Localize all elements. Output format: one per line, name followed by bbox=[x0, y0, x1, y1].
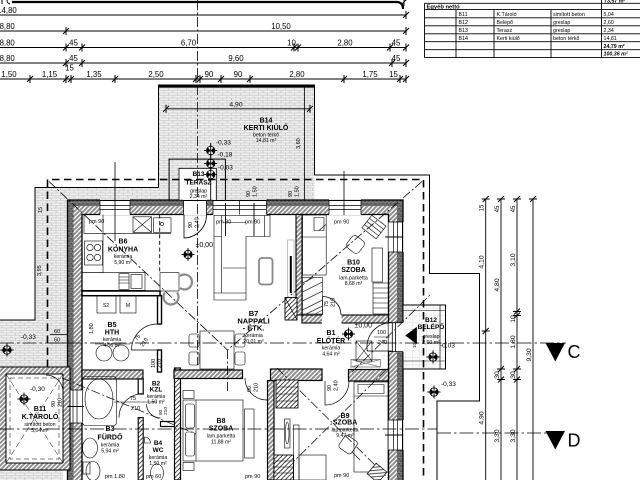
plot boundary top-right bbox=[315, 175, 480, 480]
svg-text:2,40: 2,40 bbox=[195, 217, 201, 228]
interior wall B10/B1 bbox=[302, 314, 389, 324]
top ticks bbox=[482, 196, 537, 202]
dim line 1 14,80 bbox=[0, 14, 406, 16]
svg-text:2,34: 2,34 bbox=[604, 28, 614, 34]
interior wall B8 top bbox=[174, 370, 243, 379]
window axis B10 right bbox=[385, 236, 403, 238]
exterior wall top outer leaf bbox=[68, 200, 404, 206]
terrace paving band top bbox=[35, 187, 159, 201]
svg-text:90: 90 bbox=[247, 386, 253, 392]
svg-text:60: 60 bbox=[54, 338, 60, 344]
svg-text:210: 210 bbox=[157, 359, 163, 368]
B11 inner dashed rect bbox=[10, 378, 59, 459]
svg-text:2,80: 2,80 bbox=[289, 70, 305, 79]
svg-text:90: 90 bbox=[188, 222, 194, 228]
svg-text:pm 90: pm 90 bbox=[89, 219, 104, 225]
kitchen window bbox=[100, 199, 130, 215]
svg-text:2,80: 2,80 bbox=[337, 38, 353, 47]
B8 bed bbox=[183, 400, 243, 461]
B10 bed bbox=[303, 215, 327, 275]
dim vline 1 bbox=[485, 199, 487, 480]
exterior wall right inner leaf bbox=[389, 206, 398, 480]
B10 shelf bbox=[372, 248, 383, 282]
hall shoe cabinet bbox=[351, 360, 381, 368]
B14 outline bbox=[159, 85, 315, 188]
axis line vertical A bbox=[197, 0, 199, 365]
svg-text:60: 60 bbox=[54, 329, 60, 335]
sofa bbox=[214, 216, 270, 301]
room label B9 SZOBA bbox=[331, 413, 358, 439]
svg-text:9,30: 9,30 bbox=[526, 348, 533, 361]
svg-text:10,50: 10,50 bbox=[271, 22, 291, 31]
svg-text:B1: B1 bbox=[327, 330, 336, 337]
svg-text:45: 45 bbox=[69, 38, 78, 47]
svg-text:-240: -240 bbox=[376, 340, 387, 346]
B9 window right wall bbox=[389, 420, 404, 450]
B13 terrace outline bbox=[169, 159, 225, 200]
svg-text:pm 90: pm 90 bbox=[334, 473, 349, 479]
bathroom door swing bbox=[119, 394, 143, 418]
interior wall HTH/hall lower bbox=[158, 296, 162, 373]
room label B1 ELŐTÉR bbox=[317, 330, 345, 358]
svg-text:45: 45 bbox=[511, 205, 517, 212]
svg-text:- ÉTK.: - ÉTK. bbox=[243, 324, 265, 333]
front door opening right wall bbox=[389, 323, 404, 352]
HTH appliance M bbox=[120, 296, 136, 314]
level mark B14 -0,33 bbox=[204, 144, 217, 157]
section marker C bbox=[546, 343, 566, 362]
svg-text:1,50: 1,50 bbox=[253, 186, 259, 197]
svg-text:8,68 m²: 8,68 m² bbox=[345, 281, 363, 287]
ceiling diagonal porch bbox=[352, 295, 430, 372]
svg-text:90: 90 bbox=[288, 191, 294, 197]
svg-text:-0,18: -0,18 bbox=[218, 152, 233, 159]
svg-text:SZOBA: SZOBA bbox=[209, 426, 234, 433]
svg-text:210: 210 bbox=[131, 406, 140, 412]
dim line 4 9,60 bbox=[0, 62, 406, 64]
svg-text:14,81 m²: 14,81 m² bbox=[256, 138, 277, 144]
svg-text:2,50: 2,50 bbox=[148, 70, 164, 79]
room label B5 HTH bbox=[103, 322, 122, 349]
B9 bed bbox=[354, 382, 388, 472]
level mark -0,18 bbox=[204, 157, 217, 170]
B10 wardrobe2 bbox=[373, 283, 389, 314]
svg-text:3,10: 3,10 bbox=[510, 253, 517, 266]
svg-text:4,64 m²: 4,64 m² bbox=[322, 352, 340, 358]
section marker D bbox=[546, 431, 566, 450]
room label B7 NAPPALI bbox=[237, 309, 269, 345]
dining chairs right bbox=[235, 334, 245, 347]
dim 4,90 B14 bbox=[166, 108, 310, 110]
svg-text:18,80: 18,80 bbox=[0, 54, 15, 63]
B9 pillow bbox=[358, 385, 384, 394]
svg-text:M: M bbox=[126, 303, 130, 309]
svg-text:18,80: 18,80 bbox=[0, 38, 15, 47]
svg-text:3,60: 3,60 bbox=[296, 138, 302, 149]
interior wall B9 top-left bbox=[271, 369, 323, 381]
roof overhang dashed rectangle bbox=[48, 180, 424, 480]
room label B4 WC bbox=[149, 440, 168, 467]
dim line 2 10,50 bbox=[0, 30, 406, 32]
B10 window top bbox=[329, 199, 361, 215]
mid ticks bbox=[482, 309, 521, 383]
svg-text:Kerti kiülő: Kerti kiülő bbox=[497, 36, 520, 42]
B9 cabinet bbox=[299, 455, 326, 480]
svg-text:10 lépcső: 10 lépcső bbox=[412, 328, 417, 348]
svg-text:1,50: 1,50 bbox=[1, 70, 17, 79]
front door leaf outside bbox=[406, 327, 417, 344]
svg-text:1,75: 1,75 bbox=[362, 70, 378, 79]
room label B2 KZL bbox=[147, 381, 166, 406]
svg-text:KZL: KZL bbox=[150, 387, 163, 394]
appliance box bbox=[131, 275, 142, 289]
HTH appliance S2 bbox=[97, 296, 116, 314]
kitchen unit bbox=[154, 218, 172, 233]
svg-text:beton térkő: beton térkő bbox=[553, 36, 580, 42]
B8 side table bbox=[245, 409, 255, 458]
B4 door swing bbox=[147, 404, 161, 418]
svg-text:-0,33: -0,33 bbox=[441, 381, 456, 388]
HTH door swing bbox=[132, 324, 158, 350]
B10 desk bbox=[362, 215, 386, 239]
svg-text:30: 30 bbox=[494, 371, 501, 379]
living room window bbox=[213, 199, 267, 215]
B14 garden sitting area paving bbox=[159, 85, 315, 201]
B9 bookcase bbox=[294, 425, 300, 480]
dim line 3 6,70 bbox=[0, 47, 406, 49]
dining chairs left bbox=[189, 334, 199, 347]
svg-text:B3: B3 bbox=[106, 426, 115, 433]
exterior wall left inner leaf bbox=[74, 206, 83, 480]
level mark garden -0,33 bbox=[428, 386, 441, 399]
B14 top edge thick bbox=[159, 85, 315, 87]
svg-text:45: 45 bbox=[69, 54, 78, 63]
kitchen counter left bbox=[84, 215, 103, 273]
svg-text:4,10: 4,10 bbox=[479, 255, 486, 268]
bathroom window left wall bbox=[67, 390, 83, 423]
terrace paving strip below B11 bbox=[0, 468, 63, 480]
B14 right inner line bbox=[304, 87, 306, 201]
section axis D left bbox=[0, 428, 437, 430]
svg-text:KERTI KIÜLŐ: KERTI KIÜLŐ bbox=[244, 123, 289, 132]
window axis line x344 bbox=[343, 171, 345, 215]
svg-text:2,40: 2,40 bbox=[334, 380, 340, 391]
bath sink bbox=[83, 438, 98, 458]
svg-text:3,30: 3,30 bbox=[510, 429, 517, 442]
window axis line x115 bbox=[114, 162, 116, 241]
svg-text:75: 75 bbox=[130, 396, 136, 402]
section axis D right bbox=[437, 432, 566, 434]
roof hip line right bbox=[228, 182, 423, 351]
svg-text:90: 90 bbox=[234, 70, 243, 79]
stamp marks top-left bbox=[2, 0, 10, 4]
kitchen zone dashed separation bbox=[159, 215, 161, 273]
svg-text:simított beton: simított beton bbox=[553, 12, 585, 18]
svg-text:K.TÁROLÓ: K.TÁROLÓ bbox=[22, 412, 59, 421]
B9 small hatched box bbox=[367, 463, 387, 480]
svg-text:1,35: 1,35 bbox=[86, 70, 102, 79]
terrace paving band left bbox=[35, 187, 68, 320]
B10 pillow bbox=[314, 218, 326, 231]
svg-text:B14: B14 bbox=[260, 118, 273, 125]
svg-text:B12: B12 bbox=[425, 317, 437, 324]
chair below C bbox=[164, 293, 179, 305]
interior wall B8/B9 bbox=[268, 381, 275, 480]
svg-text:C: C bbox=[568, 342, 581, 362]
ceiling diagonal bath bbox=[62, 378, 196, 434]
svg-text:45: 45 bbox=[392, 38, 401, 47]
svg-text:3,30: 3,30 bbox=[494, 429, 501, 442]
svg-text:11,88 m²: 11,88 m² bbox=[211, 440, 231, 446]
svg-text:4,90: 4,90 bbox=[229, 101, 242, 108]
B12 entry porch paving bbox=[404, 305, 446, 369]
level mark hall ±0,00 bbox=[342, 328, 355, 341]
front door swing bbox=[367, 323, 392, 351]
svg-text:210: 210 bbox=[331, 298, 337, 307]
svg-text:ELŐTÉR: ELŐTÉR bbox=[317, 336, 345, 345]
svg-text:15: 15 bbox=[65, 64, 74, 73]
dim vline 4 bbox=[532, 199, 534, 480]
B9 chair rotated bbox=[338, 434, 359, 455]
svg-text:90: 90 bbox=[205, 70, 214, 79]
svg-text:pm 1,80: pm 1,80 bbox=[105, 474, 125, 480]
svg-text:5,04 m²: 5,04 m² bbox=[31, 428, 49, 434]
B10 window right wall bbox=[389, 222, 404, 252]
B12 porch outline bbox=[404, 305, 446, 369]
bathtub bbox=[83, 377, 117, 426]
svg-text:24,79 m²: 24,79 m² bbox=[604, 44, 625, 50]
svg-text:greslap: greslap bbox=[553, 20, 570, 26]
svg-text:5,94 m²: 5,94 m² bbox=[101, 449, 119, 455]
dim vline 3 bbox=[516, 199, 518, 480]
svg-text:1,50: 1,50 bbox=[295, 186, 301, 197]
svg-text:-0,33: -0,33 bbox=[216, 140, 231, 147]
svg-text:210: 210 bbox=[58, 398, 64, 407]
level mark living ±0,00 bbox=[182, 248, 195, 261]
svg-text:45: 45 bbox=[495, 205, 501, 212]
B1 to B9 door swing bbox=[325, 381, 349, 405]
svg-text:WC: WC bbox=[153, 447, 164, 454]
plot boundary top-left bbox=[35, 187, 159, 189]
svg-text:Belépő: Belépő bbox=[497, 20, 514, 26]
roof ridge line bbox=[227, 350, 229, 392]
exterior wall outlines bbox=[68, 200, 404, 480]
B9 wardrobe top bbox=[276, 380, 298, 408]
room label B8 SZOBA bbox=[207, 418, 236, 446]
interior wall B6/B5 bbox=[82, 291, 160, 296]
svg-text:-0,33: -0,33 bbox=[21, 334, 36, 341]
svg-text:5,90 m²: 5,90 m² bbox=[114, 260, 132, 266]
svg-text:90: 90 bbox=[51, 401, 57, 407]
svg-text:15: 15 bbox=[389, 70, 398, 79]
B9 radiator bbox=[285, 419, 291, 448]
coffee table bbox=[259, 258, 273, 285]
svg-text:TERASZ: TERASZ bbox=[186, 180, 212, 187]
svg-text:B13: B13 bbox=[459, 28, 468, 34]
dishwasher bbox=[119, 274, 129, 290]
svg-text:FÜRDŐ: FÜRDŐ bbox=[98, 433, 123, 442]
exterior wall left outer leaf bbox=[68, 200, 74, 480]
B12 porch steps bbox=[404, 305, 446, 369]
svg-text:210: 210 bbox=[163, 407, 169, 415]
svg-text:SZOBA: SZOBA bbox=[333, 420, 358, 427]
svg-text:greslap: greslap bbox=[553, 28, 570, 34]
svg-text:3,95: 3,95 bbox=[37, 265, 43, 276]
room label B10 SZOBA bbox=[339, 260, 368, 288]
B9 wardrobe bottom bbox=[274, 455, 294, 480]
B8 nightstand top bbox=[183, 391, 194, 399]
level mark -0,03 bbox=[204, 168, 217, 181]
terrace paving bottom-left bbox=[0, 320, 68, 367]
B10 wardrobe hatch bbox=[303, 278, 323, 315]
svg-text:pm 90: pm 90 bbox=[245, 220, 260, 226]
svg-text:pm 60: pm 60 bbox=[146, 474, 161, 480]
exterior wall right outer leaf bbox=[397, 200, 403, 480]
svg-text:BELÉPŐ: BELÉPŐ bbox=[418, 322, 445, 331]
svg-text:14,81: 14,81 bbox=[604, 36, 617, 42]
B4 top wall stub bbox=[161, 422, 175, 427]
dim vline 2 bbox=[500, 199, 502, 480]
svg-text:Terasz: Terasz bbox=[497, 28, 513, 34]
window axis B9 right bbox=[385, 434, 403, 436]
section axis C bbox=[0, 342, 566, 344]
interior wall B7/B10 bbox=[296, 215, 302, 316]
svg-text:B6: B6 bbox=[119, 239, 128, 246]
svg-text:B13: B13 bbox=[193, 171, 205, 178]
stove bbox=[85, 241, 103, 265]
window axis line x225 bbox=[225, 203, 227, 236]
chair right C bbox=[180, 275, 192, 290]
B9 entry door swing bbox=[245, 378, 267, 400]
B11 cross bbox=[6, 374, 63, 463]
svg-text:90: 90 bbox=[246, 191, 252, 197]
svg-text:4,80: 4,80 bbox=[494, 278, 501, 291]
svg-text:2,60 m²: 2,60 m² bbox=[422, 340, 440, 346]
table grid bbox=[425, 3, 640, 57]
svg-text:B8: B8 bbox=[217, 418, 226, 425]
level mark west -0,33 bbox=[1, 344, 14, 357]
svg-text:B11: B11 bbox=[459, 12, 468, 18]
plot boundary left bbox=[0, 187, 35, 320]
wc B4 sink bbox=[145, 437, 151, 443]
interior wall B9 top-right bbox=[349, 370, 389, 382]
svg-text:KONYHA: KONYHA bbox=[108, 247, 138, 254]
svg-text:5,04: 5,04 bbox=[604, 12, 614, 18]
svg-text:B4: B4 bbox=[154, 440, 163, 447]
svg-text:SZOBA: SZOBA bbox=[341, 267, 366, 274]
level mark B11 -0,30 bbox=[18, 393, 31, 406]
bath wc bbox=[86, 462, 100, 480]
svg-text:210: 210 bbox=[254, 383, 260, 392]
svg-text:1,80: 1,80 bbox=[89, 323, 95, 334]
svg-text:B10: B10 bbox=[347, 260, 360, 267]
window axis line x254 bbox=[253, 203, 255, 236]
terrace door opening bbox=[184, 199, 207, 215]
interior wall B3/B4 bbox=[138, 418, 143, 480]
kitchen counter top bbox=[84, 215, 171, 234]
svg-text:B14: B14 bbox=[459, 36, 468, 42]
B11 storage walls bbox=[0, 367, 70, 470]
breakfast table bbox=[160, 273, 179, 291]
svg-text:S2: S2 bbox=[103, 303, 109, 309]
svg-text:20,01 m²: 20,01 m² bbox=[243, 339, 264, 345]
exterior wall top inner leaf bbox=[68, 206, 404, 214]
svg-text:±0,00: ±0,00 bbox=[196, 242, 214, 249]
svg-text:100: 100 bbox=[377, 330, 386, 336]
interior wall B2,B4/B8 bbox=[175, 368, 181, 480]
svg-text:-0,03: -0,03 bbox=[440, 343, 455, 350]
svg-text:-0,30: -0,30 bbox=[30, 386, 45, 393]
svg-text:B5: B5 bbox=[108, 322, 117, 329]
level mark porch -0,03 bbox=[427, 351, 440, 364]
svg-text:4,90: 4,90 bbox=[479, 411, 486, 424]
room label B14 KERTI KIÜLŐ bbox=[244, 118, 289, 145]
room label B12 BELÉPŐ bbox=[418, 317, 445, 346]
svg-text:2,60: 2,60 bbox=[604, 20, 614, 26]
ceiling diagonal B9 X1 bbox=[277, 368, 388, 478]
svg-text:B11: B11 bbox=[34, 406, 47, 413]
B13 terrace step bbox=[179, 168, 216, 200]
kitchen lower counter bbox=[82, 273, 145, 291]
svg-text:75: 75 bbox=[324, 301, 330, 307]
B8 pillows bbox=[186, 404, 195, 428]
svg-text:K.Tároló: K.Tároló bbox=[497, 12, 517, 18]
B1 bench bbox=[356, 341, 372, 361]
svg-text:-0,03: -0,03 bbox=[218, 165, 233, 172]
B8 nightstand bottom bbox=[183, 463, 194, 471]
svg-text:D: D bbox=[568, 431, 581, 451]
svg-text:9,60: 9,60 bbox=[228, 54, 244, 63]
svg-text:73,57 m²: 73,57 m² bbox=[604, 0, 625, 5]
HTH washers bbox=[96, 345, 112, 361]
svg-text:15: 15 bbox=[480, 204, 486, 211]
svg-text:30: 30 bbox=[510, 371, 517, 379]
terrace door swing bbox=[184, 215, 207, 239]
svg-text:90: 90 bbox=[327, 385, 333, 391]
svg-text:18,80: 18,80 bbox=[0, 22, 15, 31]
svg-text:15: 15 bbox=[38, 207, 44, 213]
svg-text:1,15: 1,15 bbox=[42, 70, 58, 79]
B10 door swing bbox=[323, 297, 342, 316]
svg-text:100,36 m²: 100,36 m² bbox=[604, 52, 628, 58]
ceiling diagonal B9 X2 bbox=[277, 368, 388, 478]
svg-text:14,80: 14,80 bbox=[0, 6, 17, 15]
svg-text:±0,00: ±0,00 bbox=[355, 323, 373, 330]
kitchen sink bbox=[133, 217, 152, 233]
room label B6 KONYHA bbox=[108, 239, 138, 267]
dining table bbox=[200, 331, 234, 369]
room label B11 K.TÁROLÓ bbox=[22, 406, 59, 434]
interior wall B5/B3 bbox=[82, 370, 143, 379]
svg-text:1,50 m²: 1,50 m² bbox=[147, 400, 165, 406]
svg-text:6,70: 6,70 bbox=[181, 38, 197, 47]
room label B13 TERASZ bbox=[186, 171, 212, 200]
level symbol stem bbox=[210, 143, 212, 200]
svg-text:B12: B12 bbox=[459, 20, 468, 26]
svg-text:Egyéb nettó: Egyéb nettó bbox=[427, 4, 461, 10]
room label B3 FÜRDŐ bbox=[98, 426, 123, 455]
window axis bath left bbox=[68, 406, 85, 408]
svg-text:2,34 m²: 2,34 m² bbox=[190, 194, 208, 200]
wc B4 toilet bbox=[151, 464, 164, 480]
interior wall B3/B2 stub bbox=[138, 379, 143, 394]
dim line 0 bbox=[12, 2, 403, 9]
dim line 5 chain bbox=[0, 78, 406, 80]
chimney hatch bbox=[285, 298, 297, 321]
svg-text:pm 90: pm 90 bbox=[245, 474, 260, 480]
roof hip line left bbox=[49, 182, 228, 351]
svg-text:HTH: HTH bbox=[105, 330, 119, 337]
